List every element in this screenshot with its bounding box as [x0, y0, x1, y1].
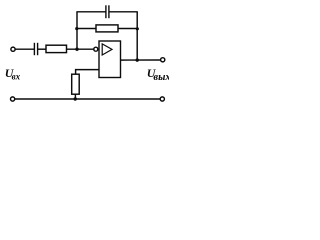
- wire: non-inverting input: [76, 70, 99, 75]
- wire input terminal to C1: [15, 48, 34, 50]
- wire: output: [121, 59, 161, 61]
- label Uvx: [5, 66, 21, 82]
- svg-text:вх: вх: [12, 72, 21, 82]
- node: feedback resistor right junction: [136, 27, 139, 30]
- node: rail junction: [74, 97, 77, 100]
- wire: feedback top horizontal: [76, 11, 106, 13]
- capacitor C1 (series input): [34, 43, 37, 55]
- resistor R3 (to common rail): [72, 74, 80, 94]
- wire R3 to rail: [74, 94, 76, 99]
- node: output junction: [136, 58, 139, 61]
- wire R1 to op-amp inverting input: [67, 48, 94, 50]
- svg-text:вых: вых: [153, 72, 169, 83]
- resistor R2 (feedback): [96, 25, 118, 32]
- wire: middle loop left: [77, 28, 96, 30]
- output terminal (right, Uvyh): [161, 58, 165, 62]
- bottom-right terminal: [160, 97, 164, 101]
- bottom-left terminal: [11, 97, 15, 101]
- wire: middle loop right: [118, 28, 137, 30]
- node: feedback resistor left junction: [75, 27, 78, 30]
- wire: feedback right vertical: [136, 12, 138, 60]
- label Uvyh: [147, 66, 171, 83]
- capacitor C2 (feedback): [106, 5, 109, 18]
- input terminal (left, Uvx): [11, 47, 15, 51]
- op-amp triangle symbol: [102, 44, 112, 55]
- inversion circle (inverting input): [94, 47, 98, 51]
- wire: feedback left vertical: [76, 12, 78, 49]
- node: inverting input junction: [75, 48, 78, 51]
- bottom common rail: [15, 98, 160, 100]
- resistor R1 (series input): [46, 45, 67, 52]
- op-amp U1 body: [99, 41, 121, 78]
- wire C1 to R1: [38, 48, 46, 50]
